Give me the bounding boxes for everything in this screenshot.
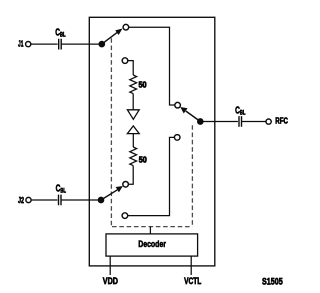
svg-text:50: 50 xyxy=(139,155,147,165)
wire RFC node to CBL xyxy=(203,121,239,123)
wire termination contact to R1 xyxy=(128,61,133,75)
svg-text:BL: BL xyxy=(60,187,66,194)
wire R2 to termination contact xyxy=(128,166,133,185)
throw contact: J1 to RFC rail xyxy=(123,24,129,30)
wire CBL to J1 node xyxy=(61,43,99,45)
svg-text:BL: BL xyxy=(60,31,66,38)
wire CBL to RFC terminal xyxy=(242,121,266,123)
wire VDD xyxy=(109,256,111,275)
svg-text:VDD: VDD xyxy=(103,276,119,286)
wire top rail (J1 throw to RFC upper throw) xyxy=(129,27,175,105)
decoder box xyxy=(106,234,198,256)
throw contact: J2 to RFC rail xyxy=(122,213,128,219)
label CBL (J2) xyxy=(56,184,67,195)
dashed die outline right edge xyxy=(191,125,193,226)
capacitor CBL (J1) xyxy=(58,39,63,50)
svg-text:50: 50 xyxy=(139,80,147,90)
terminal RFC xyxy=(266,119,271,124)
throw contact: RFC lower (to J2) xyxy=(174,135,180,141)
dashed die outline bottom edge xyxy=(112,226,192,228)
wire bottom rail (J2 throw to RFC lower throw) xyxy=(128,137,175,215)
svg-text:VCTL: VCTL xyxy=(184,276,202,286)
svg-text:BL: BL xyxy=(240,109,246,116)
throw contact: J1 termination xyxy=(122,58,128,64)
svg-text:S1505: S1505 xyxy=(262,276,283,287)
switch arm J1 (thrown to top rail) xyxy=(102,29,122,44)
switch arm J2 (thrown to termination) xyxy=(101,186,122,200)
wire J1 to CBL xyxy=(31,43,59,45)
wire J2 to CBL xyxy=(31,199,58,201)
throw contact: RFC upper (to J1) xyxy=(175,102,181,108)
dashed die outline left edge xyxy=(110,38,112,226)
label CBL (RFC) xyxy=(235,106,246,117)
node J2 common (junction dot) xyxy=(98,197,103,202)
node J1 common (junction dot) xyxy=(99,41,104,46)
terminal J2 xyxy=(26,197,31,202)
wire ground arrow to R2 xyxy=(132,134,134,147)
capacitor CBL (RFC) xyxy=(238,116,243,127)
resistor R1 50 ohm xyxy=(130,75,137,94)
throw contact: J2 termination xyxy=(123,182,129,188)
node RFC common (junction dot) xyxy=(198,119,203,124)
outer box (switch IC boundary) xyxy=(89,17,215,266)
wire dashed box to decoder xyxy=(149,227,151,234)
ground arrow (down triangle) xyxy=(127,110,139,120)
capacitor CBL (J2) xyxy=(57,194,62,205)
svg-text:RFC: RFC xyxy=(275,116,288,126)
resistor R2 50 ohm xyxy=(130,147,137,166)
terminal J1 xyxy=(26,42,31,47)
ground arrow (up triangle) xyxy=(127,126,139,134)
svg-text:J1: J1 xyxy=(18,39,24,49)
switch arm RFC (thrown to upper/J1) xyxy=(181,108,200,122)
svg-text:Decoder: Decoder xyxy=(138,239,166,249)
label CBL (J1) xyxy=(55,28,66,39)
wire VCTL xyxy=(190,256,192,275)
svg-text:J2: J2 xyxy=(18,195,24,205)
wire R1 to ground arrow xyxy=(132,94,134,110)
wire CBL to J2 node xyxy=(61,199,99,201)
